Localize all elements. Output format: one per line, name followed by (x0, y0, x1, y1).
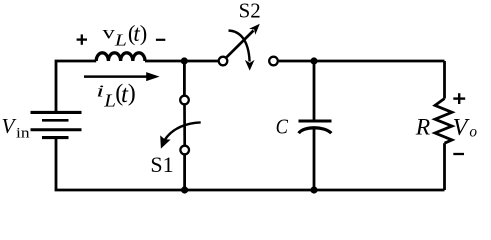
switch S2 left contact (219, 57, 228, 66)
resistor R zigzag (435, 99, 452, 144)
battery Vin plate 4 (short) (42, 136, 69, 139)
switch S2 blade arrowhead (249, 24, 260, 35)
node D junction dot (S1 bottom) (181, 186, 188, 193)
wire capacitor branch top: node B down to top plate (313, 61, 316, 120)
wire right rail bottom: resistor to bottom-right corner (443, 143, 446, 190)
label + (vL polarity) (77, 34, 87, 44)
svg-text:in: in (16, 124, 30, 141)
svg-text:V: V (453, 114, 471, 141)
capacitor C top plate (299, 119, 332, 122)
current arrow iL line (84, 75, 148, 78)
label minus (vL polarity) (156, 39, 165, 41)
switch S1 top contact (180, 96, 189, 105)
svg-text:): ) (128, 81, 136, 107)
wire node A to S2 left contact (184, 60, 218, 63)
battery Vin plate 1 (long) (31, 111, 82, 114)
svg-text:o: o (469, 123, 477, 140)
svg-text:L: L (103, 92, 116, 111)
label + (Vo polarity) (453, 93, 465, 104)
bottom wire (55, 189, 445, 192)
wire inductor to node A (145, 60, 184, 63)
wire left rail: battery top to top-left corner to inductor (56, 61, 96, 112)
switch S2 right contact (269, 57, 278, 66)
label Vo (453, 114, 478, 141)
svg-text:C: C (276, 115, 289, 138)
svg-text:v: v (103, 23, 116, 43)
svg-text:): ) (140, 20, 148, 45)
label minus (Vo polarity) (453, 153, 464, 155)
label vL(t) (103, 20, 148, 50)
svg-text:L: L (114, 32, 127, 50)
node C junction dot (capacitor bottom) (310, 186, 317, 193)
node A junction dot (181, 57, 188, 64)
switch S1 blade (closed, vertical) (183, 105, 186, 146)
svg-text:i: i (96, 82, 104, 101)
svg-text:S2: S2 (239, 0, 261, 23)
svg-text:R: R (415, 114, 431, 140)
wire S1 bottom contact to bottom wire (183, 155, 186, 191)
label iL(t) (96, 81, 136, 111)
wire S2 right contact to top-right corner (279, 60, 445, 63)
switch S1 motion arc (164, 122, 200, 140)
battery Vin plate 3 (long) (31, 128, 82, 131)
label Vin (2, 114, 30, 141)
battery Vin plate 2 (short) (42, 119, 69, 122)
switch S1 motion arc arrowhead (160, 135, 170, 148)
capacitor C bottom curved plate (299, 128, 332, 133)
switch S2 motion arc (229, 31, 250, 62)
inductor L1 (96, 53, 145, 61)
switch S2 blade (227, 31, 254, 58)
current arrow iL head (146, 72, 159, 81)
node B junction dot (capacitor top) (310, 57, 317, 64)
switch S2 motion arc arrowhead (245, 60, 255, 71)
svg-text:V: V (2, 114, 17, 138)
wire battery bottom to bottom-left corner (55, 138, 58, 190)
wire S1 branch: node A down to S1 top contact (183, 61, 186, 96)
wire right rail top: corner down to resistor (443, 61, 446, 99)
switch S1 bottom contact (180, 146, 189, 155)
svg-text:S1: S1 (150, 152, 173, 177)
wire capacitor branch bottom: plate to bottom wire (313, 129, 316, 190)
